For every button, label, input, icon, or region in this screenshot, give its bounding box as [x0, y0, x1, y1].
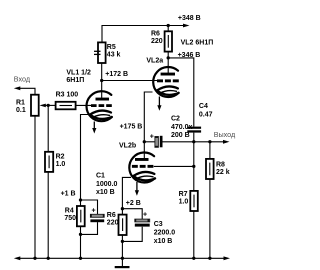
ground symbol	[115, 266, 130, 268]
svg-text:200 В: 200 В	[171, 132, 190, 139]
wire top rail +348	[102, 26, 184, 43]
heater arrow of VL1	[93, 122, 95, 130]
resistor R6 bottom	[107, 212, 127, 235]
ground rail right arrow	[224, 256, 231, 260]
svg-text:+346 В: +346 В	[178, 52, 201, 59]
svg-text:6Н1П: 6Н1П	[66, 77, 84, 84]
resistor R1 (potentiometer)	[16, 95, 46, 116]
svg-text:+172 В: +172 В	[105, 71, 128, 78]
node C4 / output	[192, 140, 195, 143]
svg-text:Вход: Вход	[14, 75, 31, 84]
svg-text:VL2b: VL2b	[119, 143, 136, 150]
wire wiper node down to R2	[47, 105, 49, 151]
svg-text:C2: C2	[171, 115, 180, 122]
wire VL2b grid to R7 line	[154, 165, 194, 167]
node VL1 plate	[100, 79, 103, 82]
wire VL2b cathode to R6b	[122, 177, 131, 214]
wire +346 to C4 top	[168, 58, 194, 127]
svg-text:+348 В: +348 В	[178, 15, 201, 22]
capacitor C1	[90, 173, 117, 223]
tube VL2a	[146, 39, 213, 110]
svg-text:VL2a: VL2a	[146, 57, 163, 64]
node SRPP midpoint	[143, 140, 146, 143]
svg-text:R4: R4	[65, 208, 74, 215]
svg-text:VL1 1/2: VL1 1/2	[66, 69, 91, 76]
wire VL1 plate node to VL2a grid	[102, 80, 158, 82]
heater arrow of VL2b	[136, 182, 138, 192]
svg-text:+: +	[150, 133, 154, 140]
wire R4 bottom to ground rail	[80, 226, 82, 258]
svg-text:1.0: 1.0	[56, 161, 66, 168]
capacitor C2	[150, 115, 193, 147]
wire R1 wiper to R3	[44, 104, 56, 106]
node R4 bottom	[79, 233, 82, 236]
wire C1 bottom to R4 leg	[81, 222, 98, 234]
wire input to R1 top	[19, 88, 35, 94]
resistor R7	[179, 191, 198, 211]
wire C2 to output	[163, 141, 226, 143]
wire output node down through grid node to R7	[193, 142, 195, 191]
wire R6 top lead	[167, 26, 169, 32]
svg-text:+2 В: +2 В	[126, 200, 141, 207]
svg-text:R5: R5	[107, 44, 116, 51]
svg-text:VL2 6Н1П: VL2 6Н1П	[181, 39, 214, 46]
node R6b bottom	[121, 240, 124, 243]
resistor R3	[56, 91, 79, 109]
svg-text:750: 750	[64, 215, 76, 222]
svg-text:+175 В: +175 В	[120, 124, 143, 131]
tube VL1 (1/2 6N1P)	[66, 69, 112, 133]
svg-text:C3: C3	[154, 221, 163, 228]
rail dots	[33, 257, 36, 260]
svg-text:2200.0: 2200.0	[154, 230, 176, 237]
ground rail	[19, 257, 225, 259]
node R6b top	[121, 207, 124, 210]
svg-text:+: +	[92, 208, 96, 215]
heater arrow of VL2a	[158, 97, 160, 107]
wire R7 bottom to ground rail	[193, 211, 195, 258]
svg-text:1000.0: 1000.0	[96, 181, 118, 188]
svg-text:C1: C1	[96, 173, 105, 180]
svg-text:220: 220	[151, 38, 163, 45]
svg-text:1.0: 1.0	[179, 199, 189, 206]
wire R3 right to VL1 grid	[76, 104, 92, 106]
svg-text:C4: C4	[199, 103, 208, 110]
input terminal Вход	[14, 75, 31, 91]
wire R6 bottom to VL2a plate	[167, 52, 169, 73]
wire R8 top lead	[209, 142, 211, 159]
svg-text:x10 В: x10 В	[154, 238, 173, 245]
svg-text:R7: R7	[179, 191, 188, 198]
ground rail left arrow	[14, 256, 20, 260]
node +346	[167, 56, 170, 59]
node top rail / R6	[167, 24, 170, 27]
svg-text:R2: R2	[56, 153, 65, 160]
svg-text:220: 220	[107, 220, 119, 227]
wire C3 bottom to R6b leg	[122, 227, 142, 242]
output terminal Выход	[214, 130, 236, 144]
svg-text:Выход: Выход	[214, 130, 236, 139]
svg-text:+: +	[143, 212, 147, 219]
svg-text:x10 В: x10 В	[96, 189, 115, 196]
wire R8 bottom to ground rail	[209, 179, 211, 258]
svg-text:+1 В: +1 В	[61, 190, 76, 197]
svg-text:0.47: 0.47	[199, 112, 213, 119]
tube VL2b	[119, 143, 155, 196]
node +348 В arrow	[178, 15, 201, 27]
svg-text:R8: R8	[216, 161, 225, 168]
resistor R8	[206, 159, 230, 179]
svg-text:22 k: 22 k	[216, 169, 230, 176]
resistor R4	[64, 206, 84, 226]
node R1 wiper / R2	[47, 104, 50, 107]
wire R2 bottom to ground rail	[47, 172, 49, 258]
svg-text:43 k: 43 k	[107, 51, 121, 58]
wire C4 bottom to output line	[193, 133, 195, 142]
wiper arrow of R1	[40, 104, 46, 108]
wire midpoint to C2	[144, 141, 155, 143]
resistor R6 top	[151, 30, 172, 51]
node R8 / output	[208, 140, 211, 143]
capacitor C4	[187, 103, 212, 133]
svg-text:R6: R6	[107, 212, 116, 219]
wire VL2a cathode to VL2b plate	[144, 92, 152, 158]
ground stub	[121, 258, 123, 266]
svg-text:R1: R1	[16, 99, 25, 106]
svg-text:R3 100: R3 100	[56, 91, 79, 98]
wire R4 top to C1 top	[81, 200, 98, 214]
node VL2b grid / R7	[192, 165, 195, 168]
wire R6b bottom to ground rail	[121, 235, 123, 258]
wire VL1 cathode to R4	[81, 115, 91, 207]
wire R1 bottom to ground rail	[34, 116, 36, 258]
wire R6b top to C3 top	[122, 209, 142, 219]
node R4 top	[79, 198, 82, 201]
resistor R5	[94, 42, 121, 63]
svg-text:R6: R6	[151, 30, 160, 37]
resistor R2	[45, 152, 65, 172]
svg-text:0.1: 0.1	[16, 107, 26, 114]
capacitor C3	[135, 212, 176, 245]
wire R5 bottom / VL1 plate lead	[101, 63, 103, 98]
